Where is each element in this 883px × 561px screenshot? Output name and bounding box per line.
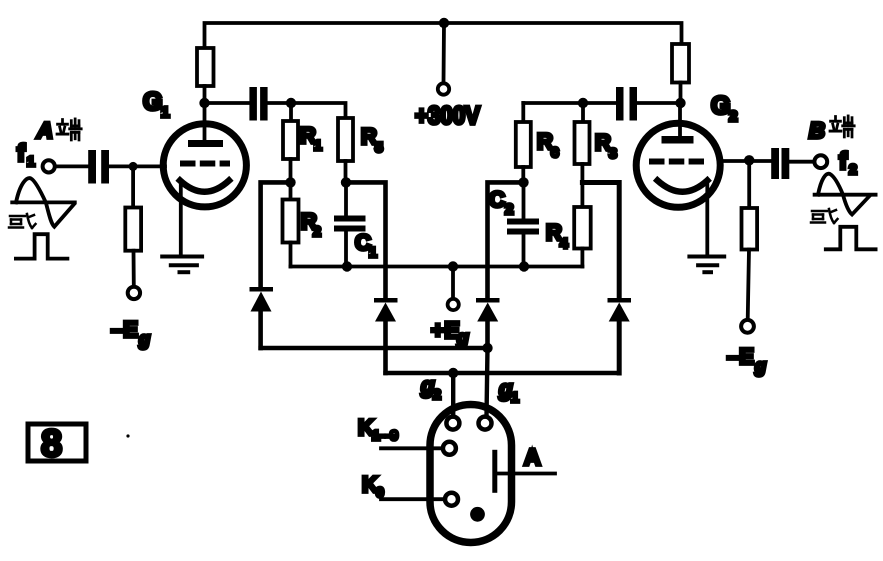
node R5/C1 junction [341, 177, 351, 187]
tube G2 anode lead [678, 103, 682, 140]
wire R3 node to coupling cap right [583, 101, 616, 105]
resistor grid bias left [131, 166, 135, 207]
svg-text:–E: –E [111, 317, 138, 342]
node R1/R2 junction [285, 177, 295, 187]
svg-text:C: C [489, 187, 505, 212]
wire cap to terminal f2 [789, 160, 814, 164]
svg-text:2: 2 [505, 201, 513, 218]
wire R5 node to diode D2 [346, 182, 386, 298]
tube G2 cathode [658, 181, 708, 192]
wire R6 node to diode D3 [488, 182, 524, 298]
wire +Eg stub [451, 267, 455, 300]
terminal f1 input [43, 160, 55, 172]
wire cap to G2 anode node [637, 101, 681, 105]
svg-text:4: 4 [560, 235, 568, 251]
wire A lead [497, 472, 555, 476]
tube G2 grid (dashed) [649, 159, 704, 165]
glyph duan left [57, 119, 81, 140]
tube G1 plate [188, 140, 223, 147]
wire K0 lead [381, 497, 445, 501]
node C1 on W1 [342, 261, 352, 271]
svg-text:5: 5 [375, 139, 383, 155]
capacitor coupling left (anode G1) [249, 87, 267, 121]
svg-text:1--9: 1--9 [372, 427, 399, 443]
wire G1 anode to coupling cap [205, 101, 250, 105]
glyph huo right [811, 209, 838, 223]
svg-text:1: 1 [27, 153, 35, 169]
wire D2 to W3 [383, 322, 388, 374]
waveform pulse left [16, 234, 68, 258]
svg-text:1: 1 [314, 137, 322, 153]
tube G1 cathode lead [179, 182, 183, 257]
resistor R4 [574, 207, 591, 249]
svg-text:8: 8 [41, 423, 62, 465]
capacitor coupling input right [771, 148, 789, 179]
pin K0 [445, 493, 458, 506]
wire bottom bus W1 [291, 265, 583, 269]
tube G1 grid (dashed) [180, 161, 230, 167]
svg-text:2: 2 [433, 386, 441, 402]
socket index dot [470, 507, 485, 522]
svg-text:1: 1 [511, 389, 519, 405]
svg-text:G: G [143, 88, 162, 116]
ground left [162, 257, 202, 273]
svg-text:A: A [36, 118, 53, 143]
node grid G1 / bias [129, 162, 138, 171]
node +Eg on W1 [448, 261, 458, 271]
resistor R3 [581, 103, 585, 122]
capacitor coupling right (anode G2) [616, 87, 637, 121]
svg-text:–E: –E [727, 344, 754, 369]
svg-text:2: 2 [849, 161, 857, 177]
glyph huo left [9, 214, 36, 228]
tube G2 plate [662, 136, 694, 144]
svg-text:+E: +E [431, 317, 460, 343]
node R1 top [286, 98, 296, 108]
wire g1 lead [487, 348, 488, 417]
wire g2 lead [451, 373, 455, 417]
tube G2 cathode lead [705, 182, 709, 257]
svg-text:1: 1 [369, 244, 377, 260]
wire top supply rail [205, 23, 682, 48]
wire R1 node to R5 [291, 103, 346, 118]
terminal +300V [438, 83, 449, 94]
anode bar A [492, 450, 497, 493]
svg-text:6: 6 [551, 144, 559, 160]
wire plate-load right to anode node [679, 83, 683, 104]
wire R3 bottom to R4 top [581, 164, 585, 207]
resistor R5 [338, 118, 353, 161]
resistor R2 [289, 182, 293, 199]
resistor plate-load left (G1 anode) [197, 48, 214, 86]
terminal -Eg right [741, 320, 754, 333]
svg-text:3: 3 [609, 145, 617, 161]
svg-text:2: 2 [313, 223, 321, 239]
resistor plate-load right (G2 anode) [672, 44, 689, 83]
capacitor coupling input left [88, 150, 109, 184]
glyph duan right [830, 116, 854, 137]
svg-text:0: 0 [376, 484, 384, 500]
resistor R1 [289, 103, 293, 121]
tube G1 cathode [180, 181, 229, 192]
resistor R6 [521, 103, 525, 122]
diode D2 [374, 298, 398, 322]
svg-text:f: f [17, 140, 26, 167]
capacitor C2 [522, 182, 526, 219]
wire R3 bottom tee to diode D4 [582, 183, 619, 299]
wire grid G2 to node [719, 159, 749, 163]
svg-text:g: g [754, 356, 766, 376]
pin g2 [446, 417, 459, 430]
node +300V tap on rail [439, 18, 449, 28]
svg-text:G: G [711, 92, 730, 120]
wire K1-9 lead [381, 446, 443, 450]
diode D3 [476, 298, 500, 322]
diode D4 [608, 298, 632, 322]
wire D1 to W2 [258, 312, 263, 349]
wire cap to R1 node [268, 101, 291, 105]
wire D3 to W2 node [485, 322, 490, 349]
tube G1 envelope [163, 124, 246, 207]
waveform sine left [12, 178, 75, 227]
tube G2 envelope [636, 123, 720, 207]
ground right [689, 257, 724, 273]
resistor grid bias right [747, 160, 751, 208]
node G1 anode junction [199, 98, 209, 108]
node W2/g1 junction [482, 343, 492, 353]
wire +300V stub [442, 23, 446, 83]
svg-text:2: 2 [729, 108, 737, 125]
svg-text:f: f [839, 148, 848, 175]
stray ink speck [126, 434, 129, 437]
svg-text:+300V: +300V [415, 102, 480, 130]
terminal f2 input [814, 155, 827, 168]
wire R6 top to R3 top [523, 101, 583, 105]
node R6/C2 junction [518, 177, 528, 187]
node C2 on W1 [519, 261, 529, 271]
wire bus W2 [261, 346, 488, 350]
waveform sine right [815, 174, 876, 215]
svg-text:g: g [138, 329, 150, 349]
wire R1 node to diode D1 [261, 182, 291, 287]
figure number box [28, 424, 86, 461]
waveform pulse right [826, 227, 876, 250]
svg-text:A: A [524, 444, 541, 470]
terminal -Eg left [128, 287, 140, 299]
node W3/g2 junction [448, 368, 458, 378]
node G2 anode junction [675, 98, 685, 108]
wire f1 to cap [56, 164, 89, 168]
svg-text:B: B [809, 118, 825, 143]
diode D1 [250, 287, 274, 312]
wire R5 bottom to node [344, 161, 348, 182]
node R3 top [578, 98, 588, 108]
pin g1 [479, 417, 492, 430]
capacitor C1 [344, 182, 348, 216]
tube G1 anode lead [203, 103, 207, 140]
tube socket envelope [430, 405, 512, 543]
terminal +Eg [448, 299, 459, 310]
wire D4 to W3 [617, 322, 622, 374]
svg-text:1: 1 [161, 104, 169, 121]
wire cap to grid G1 [109, 164, 165, 168]
wire plate-load left to anode node [203, 86, 207, 103]
wire node to cap right input [749, 159, 771, 163]
pin K1-9 [443, 442, 456, 455]
node grid G2 / bias [744, 155, 754, 165]
wire bus W3 [386, 371, 620, 375]
wire R1 bottom to node [289, 159, 293, 182]
